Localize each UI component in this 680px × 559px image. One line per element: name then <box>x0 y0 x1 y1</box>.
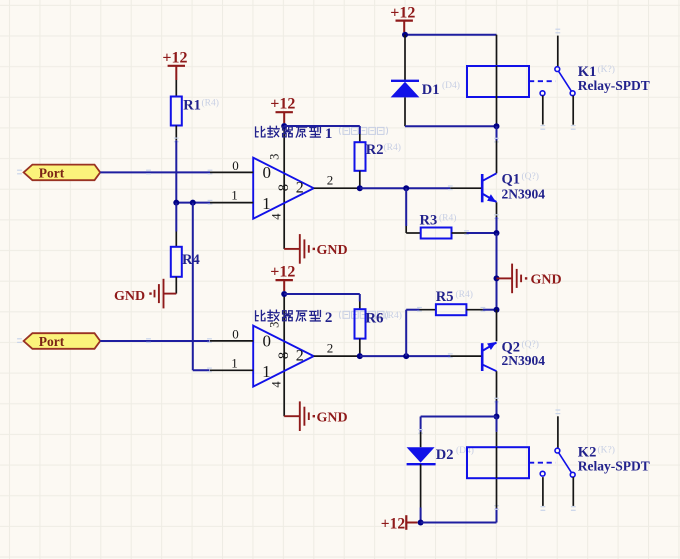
svg-text:Port: Port <box>39 334 65 349</box>
pin relay K2 pin1 (top) <box>496 417 498 432</box>
svg-text:GND: GND <box>317 411 348 426</box>
svg-text:(Q?): (Q?) <box>522 339 539 350</box>
svg-text:R6: R6 <box>365 311 384 327</box>
svg-text:0: 0 <box>263 163 272 182</box>
pin R5 right <box>466 309 483 311</box>
svg-text:+12: +12 <box>381 515 406 532</box>
wire divider node down to R4 <box>175 203 177 232</box>
diode D2 <box>407 447 436 507</box>
node GND tap <box>494 275 500 281</box>
svg-text:(R4): (R4) <box>456 289 473 300</box>
wire bottom +12 to relay K2 <box>421 522 497 524</box>
resistor R2 <box>355 142 366 171</box>
op-amp comparator U2 power +12 <box>270 263 295 291</box>
wire comp2 inverting branch to pin 1 <box>193 369 210 371</box>
pin Q1 base <box>450 187 481 189</box>
wire R5 branch up <box>405 310 407 356</box>
pin Q1 emitter lead <box>496 202 498 217</box>
wire Port1 to comparator pin 0 <box>100 171 210 173</box>
wire U2 +12 junction to R6 <box>284 293 360 295</box>
svg-text:1: 1 <box>231 188 238 203</box>
node U2 +12 junction <box>281 291 287 297</box>
pin R4 top <box>175 232 177 247</box>
svg-text:D1: D1 <box>422 82 440 98</box>
svg-text:GND: GND <box>114 289 145 304</box>
pin relay K2 coil through-line <box>496 447 498 478</box>
svg-text:2: 2 <box>296 180 304 197</box>
relay K1 switch contacts <box>540 67 575 96</box>
node R6/output junction <box>357 353 363 359</box>
svg-text:R2: R2 <box>366 142 384 158</box>
pin U1.0 (non-inverting) <box>210 171 253 173</box>
svg-text:(K?): (K?) <box>598 445 615 456</box>
svg-text:(Q?): (Q?) <box>522 171 539 182</box>
op-amp U1 triangle <box>253 158 314 219</box>
pin R6 top <box>359 302 361 310</box>
svg-text:(R4): (R4) <box>384 142 401 153</box>
relay K2 switch contacts <box>540 448 575 477</box>
pin R3 right <box>452 232 467 234</box>
relay K2 actuator dashed link <box>529 462 556 464</box>
resistor R5 <box>436 304 467 315</box>
svg-text:2: 2 <box>296 348 304 365</box>
pin R1 bottom <box>175 126 177 141</box>
svg-text:3: 3 <box>268 154 282 160</box>
pin U1.1 (inverting) <box>210 202 253 204</box>
wire U1 output to Q1 base <box>360 187 451 189</box>
wire U1 +12 junction to R2 <box>284 125 360 127</box>
svg-text:(R4): (R4) <box>439 213 456 224</box>
svg-text:1: 1 <box>325 126 333 142</box>
node R5 branch junction <box>403 353 409 359</box>
node R2/output junction <box>357 185 363 191</box>
svg-text:2N3904: 2N3904 <box>502 186 546 201</box>
svg-text:Port: Port <box>39 165 65 180</box>
wire Q2 collector to D2/K2 node <box>496 401 498 417</box>
relay K2 switch throw pins <box>542 477 544 506</box>
node bottom +12 junction <box>418 520 424 526</box>
svg-text:(R4): (R4) <box>202 98 219 109</box>
ground GND (mid rail) <box>497 264 562 294</box>
wire divider node along pin1 row <box>176 202 210 204</box>
relay K1 switch throw pins <box>542 96 544 125</box>
svg-text:Q1: Q1 <box>502 171 521 187</box>
svg-text:GND: GND <box>531 273 562 288</box>
svg-text:3: 3 <box>268 322 282 328</box>
node R3 branch junction <box>403 185 409 191</box>
resistor R4 <box>171 247 182 277</box>
wire R3 to emitter node <box>467 232 497 234</box>
relay K1 coil box <box>467 66 529 97</box>
pin Q1 collector <box>496 141 498 174</box>
node U1 +12 junction <box>281 123 287 129</box>
node R5 / rail <box>494 307 500 313</box>
svg-text:R4: R4 <box>182 252 200 268</box>
port Port (input 2) <box>24 333 101 349</box>
svg-text:1: 1 <box>262 194 271 213</box>
node Q1 emitter / R3 <box>494 230 500 236</box>
node D1/K1/Q1 junction <box>494 123 500 129</box>
svg-text:+12: +12 <box>390 4 415 21</box>
svg-text:0: 0 <box>263 331 272 350</box>
svg-text:2: 2 <box>325 310 333 326</box>
wire D2 cathode to +12 node <box>420 508 422 523</box>
transistor Q1 2N3904 <box>482 173 496 202</box>
relay K1 switch common pin <box>555 29 560 33</box>
pin R5 left <box>420 309 436 311</box>
transistor Q2 2N3904 <box>482 342 496 371</box>
wire R5 to rail <box>483 309 497 311</box>
svg-text:Relay-SPDT: Relay-SPDT <box>578 78 650 93</box>
svg-text:(D4): (D4) <box>442 80 460 91</box>
resistor R6 <box>355 309 366 338</box>
port Port (input 1) <box>24 165 101 181</box>
wire ground rail <box>496 233 498 310</box>
op-amp comparator U1 power +12 <box>270 95 295 123</box>
pin U2.0 (non-inverting) <box>210 340 253 342</box>
pin Q2 base <box>450 355 481 357</box>
svg-text:0: 0 <box>232 326 239 341</box>
node divider to comp2 branch <box>190 200 196 206</box>
wire R1 to divider node <box>175 140 177 202</box>
pin Q2 emitter lead <box>496 310 498 342</box>
node divider/R1/R4 <box>173 200 179 206</box>
pin R2 top <box>359 134 361 142</box>
svg-text:(K?): (K?) <box>598 64 615 75</box>
relay K1 actuator dashed link <box>529 80 556 82</box>
pin U2.2 (output) <box>314 355 360 357</box>
svg-text:D2: D2 <box>436 447 454 463</box>
op-amp U1 power through-line <box>283 126 285 249</box>
svg-text:(R4): (R4) <box>385 310 402 321</box>
svg-text:1: 1 <box>231 355 238 370</box>
pin R6 bottom <box>359 339 361 357</box>
resistor R1 <box>171 97 182 126</box>
svg-text:R3: R3 <box>420 212 438 228</box>
power +12 (bottom, rotated) <box>381 515 418 532</box>
svg-text:2: 2 <box>327 173 334 188</box>
svg-text:+12: +12 <box>270 95 295 112</box>
svg-text:R1: R1 <box>183 98 201 114</box>
label U2 name <box>256 310 321 321</box>
node D2/K2/Q2 junction <box>494 414 500 420</box>
node top-rail junction <box>402 32 408 38</box>
diode D1 <box>391 81 420 126</box>
op-amp U2 triangle <box>253 326 314 387</box>
svg-text:0: 0 <box>232 158 239 173</box>
svg-text:2: 2 <box>327 341 334 356</box>
op-amp U2 power through-line <box>283 294 285 416</box>
wire Port2 to comparator2 pin 0 <box>100 340 209 342</box>
wire +12 top to relay K1 <box>405 34 497 36</box>
ground GND (left of R4) <box>114 279 176 309</box>
svg-text:4: 4 <box>269 213 283 220</box>
svg-text:8: 8 <box>276 184 292 191</box>
svg-text:+12: +12 <box>270 263 295 280</box>
pin relay K1 pin1 (top) <box>496 35 498 66</box>
svg-text:+12: +12 <box>162 50 187 67</box>
wire junction to D2 <box>421 416 497 418</box>
wire D1 anode to collector node <box>405 125 497 127</box>
pin D2 anode lead <box>420 432 422 447</box>
wire D1 cathode lead <box>404 35 406 80</box>
pin relay K1 coil through-line <box>496 66 498 97</box>
svg-text:GND: GND <box>317 243 348 258</box>
resistor R3 <box>421 228 452 239</box>
pin relay K1 pin2 (bottom) <box>496 97 498 126</box>
power +12 (R1) <box>162 50 187 81</box>
wire comp2 inverting branch (vertical x=192.8) <box>192 203 194 371</box>
pin R4 bottom <box>175 277 177 294</box>
relay K2 switch common pin <box>556 410 561 414</box>
power +12 (top rail) <box>390 4 415 32</box>
wire U2 output to Q2 base <box>360 355 451 357</box>
svg-text:Relay-SPDT: Relay-SPDT <box>578 459 650 474</box>
wire collector node down to Q1 <box>496 126 498 140</box>
svg-text:8: 8 <box>276 352 292 359</box>
ground GND (U2) <box>284 401 347 431</box>
pin R2 bottom <box>359 171 361 188</box>
svg-text:2N3904: 2N3904 <box>502 353 546 368</box>
pin Q2 collector <box>496 371 498 400</box>
svg-text:R5: R5 <box>436 289 454 305</box>
wire Q1 emitter to rail <box>496 217 498 233</box>
label U1 name <box>256 126 321 137</box>
pin relay K2 pin2 (bottom) <box>496 478 498 508</box>
pin R1 top <box>175 80 177 97</box>
svg-text:4: 4 <box>269 381 283 388</box>
pin R3 left <box>406 232 421 234</box>
pin U1.2 (output) <box>314 187 360 189</box>
svg-text:1: 1 <box>262 362 271 381</box>
wire R3 branch down <box>405 188 407 226</box>
pin U2.1 (inverting) <box>210 369 253 371</box>
ground GND (U1) <box>284 234 347 264</box>
relay K2 coil box <box>467 447 529 478</box>
